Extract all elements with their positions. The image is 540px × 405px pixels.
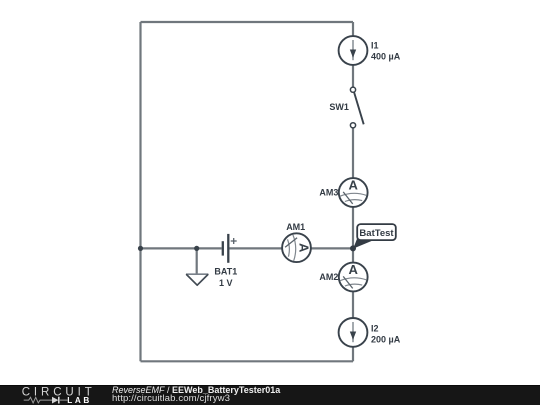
- current source I1: [339, 36, 368, 65]
- svg-text:A: A: [349, 262, 359, 277]
- wire top: [141, 21, 354, 23]
- wire middle left: [141, 247, 222, 249]
- wire right top stub: [352, 22, 354, 36]
- ammeter AM2: [339, 262, 368, 291]
- wire AM3 to node BatTest: [352, 207, 354, 249]
- net flag BatTest: [353, 224, 396, 249]
- ammeter AM3: [339, 178, 368, 207]
- battery BAT1: [223, 234, 237, 263]
- footer bar: [0, 385, 540, 405]
- wire battery to AM1: [229, 247, 282, 249]
- switch SW1: [350, 87, 363, 128]
- wire bottom: [141, 360, 354, 362]
- wire node to AM2: [352, 248, 354, 262]
- wire I1 to SW1: [352, 65, 354, 87]
- svg-text:A: A: [349, 178, 359, 193]
- junction dot ground: [194, 246, 199, 251]
- node BatTest junction dot: [350, 245, 356, 251]
- wire AM1 to node: [311, 247, 353, 249]
- svg-text:AM2: AM2: [319, 272, 338, 282]
- footer title text: [112, 385, 280, 395]
- CircuitLab logo: [0, 384, 100, 405]
- wire ground stub: [196, 248, 198, 274]
- ground: [186, 274, 208, 285]
- svg-text:I1: I1: [371, 40, 379, 50]
- svg-text:1 V: 1 V: [219, 278, 233, 288]
- current source I2: [339, 318, 368, 347]
- svg-text:BatTest: BatTest: [359, 228, 394, 239]
- svg-text:A: A: [296, 243, 311, 253]
- wire AM2 to I2: [352, 291, 354, 318]
- svg-text:LAB: LAB: [67, 396, 92, 405]
- svg-text:SW1: SW1: [329, 102, 349, 112]
- wire left: [139, 22, 141, 361]
- wire I2 to bottom: [352, 347, 354, 361]
- svg-text:400 µA: 400 µA: [371, 51, 401, 61]
- svg-text:I2: I2: [371, 323, 379, 333]
- svg-text:200 µA: 200 µA: [371, 335, 401, 345]
- footer url text: [112, 393, 230, 404]
- junction dot left: [138, 246, 143, 251]
- svg-text:AM3: AM3: [319, 188, 338, 198]
- ammeter AM1: [282, 233, 311, 262]
- svg-text:AM1: AM1: [286, 222, 305, 232]
- svg-text:BAT1: BAT1: [214, 267, 237, 277]
- wire SW1 to AM3: [352, 128, 354, 178]
